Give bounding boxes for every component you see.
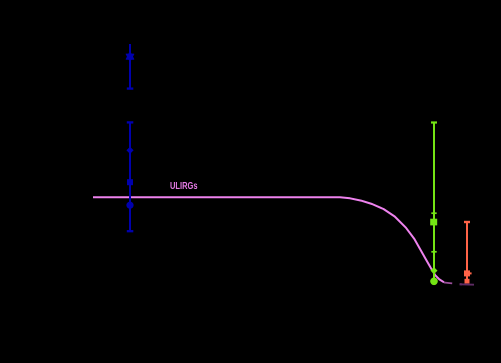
plus tick lower green [431,251,436,253]
diamond marker green [431,267,438,274]
wire: vertical line of orange error bar [466,222,468,282]
ULIRGs model curve (violet) [93,197,444,282]
wire: vertical line of lower blue error bar [129,122,131,231]
diamond marker blue [126,147,133,154]
blue error bar segment B (lower) [126,122,133,231]
square marker orange lower [465,279,470,284]
plus tick upper green [431,212,436,214]
curve faint continuation (medium violet) [444,282,452,285]
cap top of orange bar [464,221,470,223]
circle marker green [430,278,438,286]
star marker blue (hexagram) [126,52,134,60]
blue error bar segment A (upper) [126,44,134,89]
cap bottom of upper blue bar [127,87,134,89]
asterisk bump orange [470,272,472,274]
orange error bar [464,222,472,283]
wire: vertical line of green error bar [433,123,435,282]
svg-text:ULIRGs: ULIRGs [170,181,198,192]
square marker green [430,219,437,226]
green error bar [430,123,438,286]
square marker blue [127,179,133,185]
wire: vertical line of upper blue error bar [129,44,131,89]
square marker orange upper [464,270,470,276]
curve dark continuation (dark purple) [460,283,475,285]
cap top of green bar [431,121,437,123]
curve dark continuation bright tip [460,283,462,285]
cap top of lower blue bar [127,121,134,123]
cap bottom of lower blue bar [127,230,134,232]
circle marker blue [126,202,133,209]
